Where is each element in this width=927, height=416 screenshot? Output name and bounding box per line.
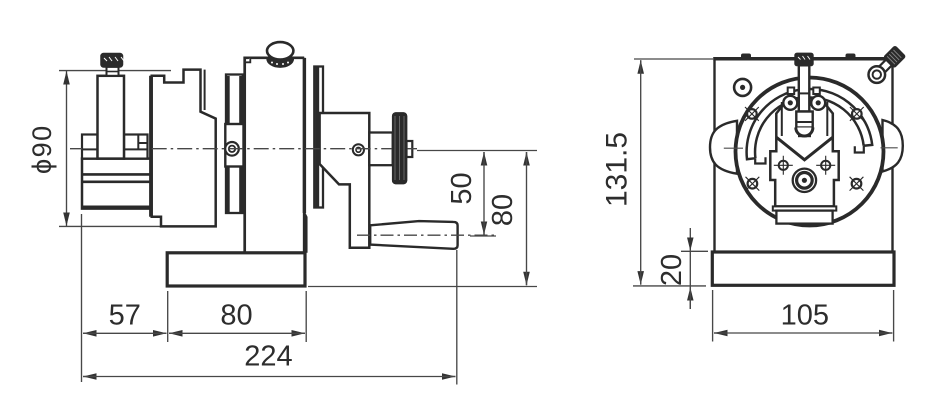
svg-text:131.5: 131.5: [601, 132, 634, 207]
svg-text:ϕ90: ϕ90: [27, 124, 57, 174]
svg-text:20: 20: [656, 254, 688, 286]
svg-text:50: 50: [446, 172, 478, 204]
svg-text:224: 224: [244, 341, 292, 373]
svg-text:105: 105: [781, 300, 829, 332]
svg-text:57: 57: [109, 300, 141, 332]
svg-text:80: 80: [220, 300, 252, 332]
svg-text:80: 80: [487, 194, 519, 226]
